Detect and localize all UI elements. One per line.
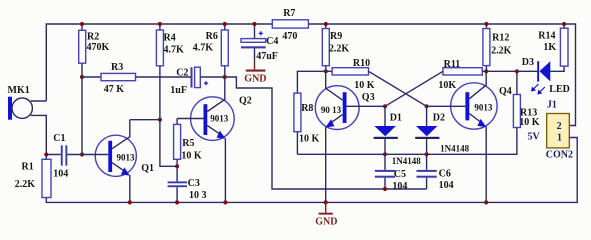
svg-text:9013: 9013 [210, 114, 229, 124]
svg-text:R2: R2 [87, 31, 99, 42]
node Q3 base / D1 top [383, 104, 387, 108]
svg-text:R1: R1 [22, 161, 34, 172]
resistor R6 [193, 24, 229, 77]
wire R11 to Q3 base [385, 71, 443, 106]
svg-text:D3: D3 [522, 57, 534, 68]
svg-text:104: 104 [53, 169, 68, 180]
svg-text:CON2: CON2 [546, 149, 573, 160]
svg-text:R7: R7 [283, 8, 295, 19]
wire top rail [46, 24, 575, 126]
svg-text:C4: C4 [266, 36, 278, 47]
svg-text:C6: C6 [439, 168, 451, 179]
node Q3 emitter on rail [324, 200, 328, 204]
svg-text:4.7K: 4.7K [164, 45, 185, 56]
node C5 bottom [383, 187, 387, 191]
resistor R14 [538, 24, 568, 66]
svg-text:10 K: 10 K [519, 117, 540, 128]
node R6 top [223, 22, 227, 26]
resistor R13 [513, 71, 539, 154]
resistor R10 [326, 58, 375, 91]
ground main [315, 202, 337, 227]
svg-text:R14: R14 [538, 31, 555, 42]
svg-text:470: 470 [282, 31, 297, 42]
svg-text:10 K: 10 K [299, 134, 320, 145]
svg-text:1uF: 1uF [170, 85, 187, 96]
node Q2 emitter on rail [223, 200, 227, 204]
node R5 bottom / C3 top [175, 164, 179, 168]
svg-text:Q2: Q2 [239, 95, 252, 106]
svg-text:90 13: 90 13 [321, 105, 342, 115]
svg-text:47 K: 47 K [104, 84, 125, 95]
node Q4 base / D2 top [425, 104, 429, 108]
resistor R5 [174, 119, 202, 167]
node Q4 emitter on rail [484, 200, 488, 204]
svg-text:1N4148: 1N4148 [440, 143, 469, 153]
svg-text:10 3: 10 3 [189, 190, 207, 201]
svg-text:9013: 9013 [117, 152, 136, 162]
svg-text:R6: R6 [206, 31, 218, 42]
capacitor C6 [417, 154, 454, 191]
wire trigger line R8 to R13 [297, 153, 517, 155]
wire R10 to Q4 base [369, 71, 427, 106]
svg-text:104: 104 [439, 180, 454, 191]
diode D2 [415, 106, 445, 154]
svg-text:R5: R5 [182, 138, 194, 149]
svg-text:C5: C5 [394, 169, 406, 180]
svg-text:2.2K: 2.2K [491, 45, 512, 56]
transistor Q1 [82, 120, 154, 203]
wire bottom rail [46, 138, 577, 203]
node C1 left [44, 152, 48, 156]
svg-text:1K: 1K [543, 42, 556, 53]
wire Q2 collector to trigger caps [225, 77, 427, 189]
svg-text:C1: C1 [53, 133, 65, 144]
resistor R7 [272, 8, 308, 42]
svg-text:2.2K: 2.2K [329, 43, 350, 54]
svg-text:9013: 9013 [474, 102, 493, 112]
svg-text:Q3: Q3 [362, 92, 375, 103]
resistor R8 [294, 71, 326, 154]
svg-text:C2: C2 [176, 67, 188, 78]
svg-text:GND: GND [244, 74, 266, 85]
capacitor C4 [241, 24, 278, 62]
svg-text:47uF: 47uF [256, 51, 278, 62]
svg-text:Q1: Q1 [141, 163, 154, 174]
node R4 top [158, 22, 162, 26]
svg-text:R3: R3 [111, 62, 123, 73]
svg-text:R11: R11 [444, 59, 461, 70]
svg-text:LED: LED [549, 84, 570, 95]
svg-text:R10: R10 [353, 58, 370, 69]
svg-text:R4: R4 [164, 32, 176, 43]
resistor R4 [156, 24, 184, 120]
svg-text:C3: C3 [188, 178, 200, 189]
node C1 right / Q1 base [80, 152, 84, 156]
label 5V [528, 131, 541, 142]
svg-text:R12: R12 [492, 32, 509, 43]
label 1N4148 left [392, 156, 421, 166]
resistor R3 [82, 62, 191, 95]
svg-text:D2: D2 [433, 112, 445, 123]
node Q1 collector [158, 118, 162, 122]
node D2 / C6 [425, 152, 429, 156]
svg-text:4.7K: 4.7K [193, 43, 214, 54]
svg-text:R9: R9 [330, 31, 342, 42]
svg-text:GND: GND [315, 217, 337, 228]
diode D3 LED [522, 57, 570, 95]
node Q2 collector / C2 / R6 [223, 75, 227, 79]
resistor R9 [322, 24, 349, 71]
svg-text:470K: 470K [87, 42, 110, 53]
node R9 bottom / Q3 collector [324, 69, 328, 73]
wire R4 column to R5 bottom node [160, 120, 177, 167]
wire Q4 collector to D3 [486, 70, 537, 72]
label 1N4148 right [440, 143, 469, 153]
svg-text:MK1: MK1 [8, 85, 30, 96]
connector J1 [546, 100, 573, 161]
node C3 bottom on rail [175, 200, 179, 204]
capacitor C3 [168, 166, 207, 202]
capacitor C2 [170, 67, 224, 96]
resistor R1 [15, 155, 51, 198]
svg-text:104: 104 [392, 181, 407, 192]
transistor Q4 [427, 71, 512, 202]
svg-text:10K: 10K [438, 80, 456, 91]
node C4 top [252, 22, 256, 26]
node R2 bottom / R3 left [80, 75, 84, 79]
microphone MK1 [8, 85, 47, 155]
svg-text:5V: 5V [528, 131, 541, 142]
svg-text:10 K: 10 K [181, 150, 202, 161]
svg-text:Q4: Q4 [499, 86, 512, 97]
node R14 top [562, 22, 566, 26]
wire Q1 collector [130, 119, 160, 121]
svg-text:1: 1 [557, 133, 562, 144]
capacitor C5 [375, 154, 408, 192]
svg-text:1N4148: 1N4148 [392, 156, 421, 166]
node R13 top [515, 69, 519, 73]
svg-text:J1: J1 [547, 100, 557, 111]
transistor Q3 [315, 71, 385, 202]
resistor R12 [483, 24, 512, 71]
node R2 top [80, 22, 84, 26]
resistor R11 [438, 59, 486, 91]
transistor Q2 [177, 77, 252, 202]
node Q1 emitter on rail [128, 200, 132, 204]
svg-text:D1: D1 [390, 113, 402, 124]
node R9 top [324, 22, 328, 26]
capacitor C1 [46, 133, 82, 180]
svg-text:10 K: 10 K [354, 80, 375, 91]
ground C4 [244, 61, 266, 85]
node R12 top [484, 22, 488, 26]
node Q4 collector / R12 / R11 [484, 69, 488, 73]
svg-text:2.2K: 2.2K [15, 179, 36, 190]
diode D1 [374, 106, 402, 154]
svg-text:R8: R8 [301, 103, 313, 114]
svg-text:2: 2 [557, 121, 562, 132]
wire R2 to Q1 base [81, 77, 83, 155]
resistor R2 [79, 24, 110, 77]
node D1 / C5 [383, 152, 387, 156]
